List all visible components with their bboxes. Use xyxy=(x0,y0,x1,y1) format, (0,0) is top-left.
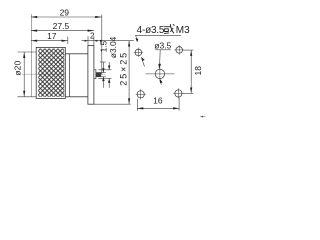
mounting flange (side view) xyxy=(88,46,94,105)
dimension o20 (nut diameter) xyxy=(18,52,37,97)
dimension 16 (horizontal hole pitch) xyxy=(137,97,179,110)
svg-text:ø3.04: ø3.04 xyxy=(108,36,118,58)
left extension line xyxy=(30,14,32,97)
bottom-right hole xyxy=(173,88,183,98)
centerline of connector axis xyxy=(22,73,106,75)
hanzi huo (drawn) xyxy=(164,24,174,33)
svg-text:4-ø3.5: 4-ø3.5 xyxy=(137,25,165,36)
svg-text:25×25: 25×25 xyxy=(119,51,129,86)
dimension 17 xyxy=(31,40,68,42)
dimension 1.5 (pin diameter) xyxy=(100,62,106,88)
dimension 25x25 (flange square) xyxy=(94,41,131,104)
top-left hole xyxy=(134,48,144,58)
dimension 18 (vertical hole pitch) xyxy=(183,50,194,93)
dimension o3.04 (stub diameter) xyxy=(98,62,111,88)
body cylinder xyxy=(65,54,88,97)
svg-text:27.5: 27.5 xyxy=(53,21,70,31)
svg-text:18: 18 xyxy=(193,66,203,76)
knurled coupling nut xyxy=(36,47,65,98)
svg-text:16: 16 xyxy=(153,95,163,105)
dimension 29 xyxy=(31,15,102,75)
leader arrow below centre hole xyxy=(159,81,162,84)
svg-text:29: 29 xyxy=(60,8,70,18)
dimension 2 (flange thickness) xyxy=(82,36,134,45)
dimension 27.5 xyxy=(31,30,94,32)
top-right hole xyxy=(174,45,184,55)
svg-text:17: 17 xyxy=(47,31,57,41)
body step line xyxy=(68,54,70,97)
solder pin xyxy=(96,73,101,77)
leader arrow into top-left hole xyxy=(142,60,144,66)
svg-text:ø20: ø20 xyxy=(12,61,22,76)
centre hole xyxy=(146,68,175,82)
svg-text:2: 2 xyxy=(90,32,95,41)
small stray mark bottom right xyxy=(200,116,203,118)
svg-text:ø3.5: ø3.5 xyxy=(154,40,171,50)
svg-text:M3: M3 xyxy=(176,25,190,36)
rear insulator stub xyxy=(94,70,96,79)
bottom-left hole xyxy=(136,89,146,99)
